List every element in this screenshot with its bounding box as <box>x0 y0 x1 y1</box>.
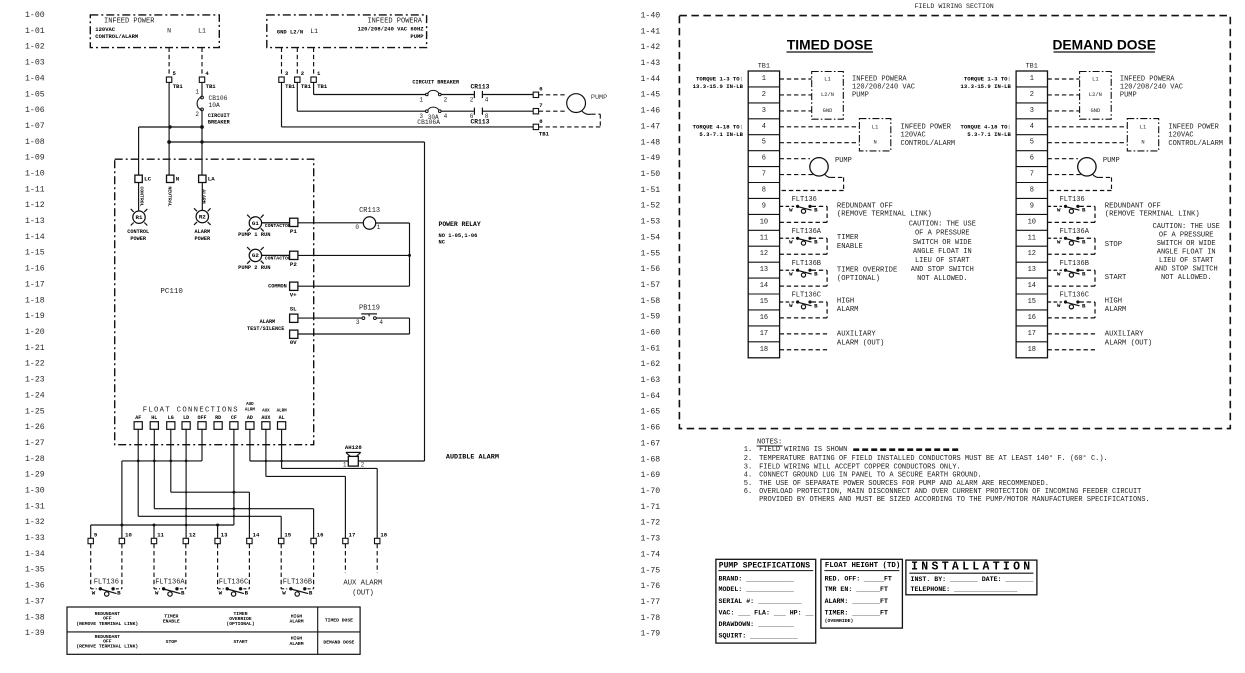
svg-text:G1: G1 <box>252 220 259 227</box>
svg-text:1-60: 1-60 <box>641 329 661 338</box>
svg-text:LIEU OF START: LIEU OF START <box>915 257 970 265</box>
svg-text:TB1: TB1 <box>1026 62 1038 70</box>
svg-text:N: N <box>176 175 180 182</box>
svg-text:TB1: TB1 <box>758 62 770 70</box>
svg-text:W: W <box>1057 207 1061 214</box>
svg-text:1-11: 1-11 <box>25 185 45 194</box>
svg-text:11: 11 <box>760 234 768 242</box>
svg-text:REDUNDANT OFF: REDUNDANT OFF <box>1105 202 1161 210</box>
svg-text:AUX ALARM: AUX ALARM <box>343 579 382 587</box>
svg-text:LD: LD <box>183 415 189 421</box>
svg-text:OFF: OFF <box>197 415 206 421</box>
svg-text:9: 9 <box>762 202 766 210</box>
svg-text:BRAND: ____________: BRAND: ____________ <box>719 575 794 582</box>
svg-text:1-79: 1-79 <box>641 630 661 639</box>
svg-text:1-63: 1-63 <box>641 376 661 385</box>
svg-text:TEST/SILENCE: TEST/SILENCE <box>247 326 284 332</box>
svg-text:R1: R1 <box>136 214 143 221</box>
svg-text:N: N <box>1141 140 1144 146</box>
svg-text:15: 15 <box>284 531 291 538</box>
svg-text:AUDIBLE ALARM: AUDIBLE ALARM <box>446 453 499 461</box>
svg-text:ALARM: ALARM <box>201 189 207 204</box>
svg-text:PUMP 1 RUN: PUMP 1 RUN <box>238 232 270 238</box>
svg-text:(OUT): (OUT) <box>352 590 374 598</box>
svg-text:INFEED POWERA: INFEED POWERA <box>852 75 907 83</box>
svg-text:L2/N: L2/N <box>1089 92 1102 98</box>
svg-text:LIEU OF START: LIEU OF START <box>1159 257 1214 265</box>
svg-text:1-38: 1-38 <box>25 613 45 622</box>
svg-text:CR113: CR113 <box>359 207 380 215</box>
svg-text:PROVIDED BY OTHERS AND MUST BE: PROVIDED BY OTHERS AND MUST BE SIZED ACC… <box>759 496 1150 504</box>
svg-text:16: 16 <box>317 531 324 538</box>
svg-text:(REMOVE TERMINAL LINK): (REMOVE TERMINAL LINK) <box>76 621 138 627</box>
svg-text:2: 2 <box>470 96 474 103</box>
svg-text:FIELD WIRING IS SHOWN: FIELD WIRING IS SHOWN <box>759 446 847 454</box>
svg-text:L1: L1 <box>824 76 830 82</box>
svg-text:1-53: 1-53 <box>641 218 661 227</box>
svg-text:4.: 4. <box>744 472 752 480</box>
svg-text:1: 1 <box>195 89 199 96</box>
svg-text:6.: 6. <box>744 488 752 496</box>
svg-text:14: 14 <box>253 531 260 538</box>
svg-text:CONNECT GROUND LUG IN PANEL TO: CONNECT GROUND LUG IN PANEL TO A SECURE … <box>759 472 982 480</box>
svg-text:CONTROL: CONTROL <box>127 229 149 235</box>
svg-text:AND STOP SWITCH: AND STOP SWITCH <box>911 266 974 274</box>
svg-text:1-77: 1-77 <box>641 598 661 607</box>
svg-text:RED. OFF: _____FT: RED. OFF: _____FT <box>825 575 892 582</box>
svg-text:6: 6 <box>762 155 766 163</box>
svg-text:W: W <box>1057 302 1061 309</box>
svg-text:2: 2 <box>361 462 365 469</box>
svg-text:ANGLE FLOAT IN: ANGLE FLOAT IN <box>1157 248 1216 256</box>
svg-text:CONTROL/ALARM: CONTROL/ALARM <box>1168 140 1223 148</box>
svg-text:TB1: TB1 <box>301 83 312 90</box>
svg-text:PUMP: PUMP <box>1103 157 1120 165</box>
svg-text:1-51: 1-51 <box>641 186 661 195</box>
svg-text:B: B <box>1082 239 1086 246</box>
svg-text:DEMAND DOSE: DEMAND DOSE <box>1052 38 1155 53</box>
svg-text:1-46: 1-46 <box>641 107 661 116</box>
svg-text:1-31: 1-31 <box>25 502 45 511</box>
svg-text:W: W <box>1057 270 1061 277</box>
svg-text:HIGH: HIGH <box>291 613 302 619</box>
svg-text:2: 2 <box>762 91 766 99</box>
svg-text:1-14: 1-14 <box>25 233 45 242</box>
svg-text:W: W <box>155 590 159 597</box>
svg-text:FLT136: FLT136 <box>1060 196 1085 204</box>
svg-text:P2: P2 <box>290 261 297 268</box>
svg-text:PB119: PB119 <box>359 305 380 313</box>
svg-text:1-54: 1-54 <box>641 233 661 242</box>
svg-text:TIMER: _______FT: TIMER: _______FT <box>825 610 888 617</box>
svg-text:1-35: 1-35 <box>25 566 45 575</box>
svg-text:AD: AD <box>247 415 253 421</box>
svg-text:1-41: 1-41 <box>641 27 661 36</box>
svg-text:NOT ALLOWED.: NOT ALLOWED. <box>917 275 967 283</box>
svg-text:INFEED POWER: INFEED POWER <box>104 18 155 26</box>
svg-text:CONTACTOR: CONTACTOR <box>265 255 291 261</box>
svg-text:W: W <box>789 238 793 245</box>
svg-text:ENABLE: ENABLE <box>837 243 863 251</box>
svg-text:NOTES:: NOTES: <box>757 438 782 446</box>
svg-text:GND: GND <box>823 108 833 114</box>
svg-text:1-06: 1-06 <box>25 106 45 115</box>
svg-text:ALARM: ALARM <box>260 319 276 325</box>
svg-text:FLT136: FLT136 <box>792 196 817 204</box>
svg-text:TMR EN: ______FT: TMR EN: ______FT <box>825 586 888 593</box>
svg-text:ALARM (OUT): ALARM (OUT) <box>837 340 884 348</box>
svg-text:120VAC: 120VAC <box>901 132 926 140</box>
svg-text:FLOAT CONNECTIONS: FLOAT CONNECTIONS <box>143 407 239 415</box>
svg-text:HIGH: HIGH <box>291 636 302 642</box>
svg-text:1-66: 1-66 <box>641 424 661 433</box>
svg-text:TB1: TB1 <box>206 83 217 90</box>
svg-text:START: START <box>1105 274 1127 282</box>
svg-text:OFF: OFF <box>103 638 112 644</box>
svg-text:B: B <box>814 302 818 309</box>
svg-text:3: 3 <box>1030 107 1034 115</box>
svg-text:1-34: 1-34 <box>25 550 45 559</box>
svg-text:PUMP: PUMP <box>852 91 869 99</box>
svg-text:OF A PRESSURE: OF A PRESSURE <box>1159 231 1214 239</box>
svg-text:REDUNDANT OFF: REDUNDANT OFF <box>837 202 893 210</box>
svg-text:1-05: 1-05 <box>25 90 45 99</box>
svg-text:ALARM: ALARM <box>289 641 303 647</box>
svg-text:1-22: 1-22 <box>25 360 45 369</box>
svg-text:1-70: 1-70 <box>641 487 661 496</box>
svg-text:SERIAL #: ___________: SERIAL #: ___________ <box>719 598 802 605</box>
svg-text:9: 9 <box>1030 202 1034 210</box>
svg-text:2.: 2. <box>744 455 752 463</box>
svg-text:G2: G2 <box>252 252 259 259</box>
svg-text:AND STOP SWITCH: AND STOP SWITCH <box>1155 265 1218 273</box>
svg-text:B: B <box>1082 207 1086 214</box>
svg-text:L1: L1 <box>198 28 206 35</box>
svg-text:1: 1 <box>762 75 766 83</box>
svg-text:RD: RD <box>215 415 221 421</box>
svg-text:TIMED DOSE: TIMED DOSE <box>325 618 353 624</box>
svg-text:SWITCH OR WIDE: SWITCH OR WIDE <box>1157 240 1216 248</box>
svg-text:TB1: TB1 <box>285 83 296 90</box>
svg-text:TIMER OVERRIDE: TIMER OVERRIDE <box>837 267 897 275</box>
svg-text:B: B <box>309 590 313 597</box>
svg-text:PUMP 2 RUN: PUMP 2 RUN <box>238 265 270 271</box>
svg-text:10: 10 <box>125 531 132 538</box>
svg-text:1: 1 <box>419 96 423 103</box>
svg-text:AUX: AUX <box>261 415 270 421</box>
svg-text:4: 4 <box>444 113 448 120</box>
svg-text:7: 7 <box>762 171 766 179</box>
svg-text:L2/N: L2/N <box>821 92 834 98</box>
svg-text:1-64: 1-64 <box>641 392 661 401</box>
svg-text:W: W <box>789 207 793 214</box>
svg-text:W: W <box>1057 238 1061 245</box>
svg-text:DEMAND DOSE: DEMAND DOSE <box>323 639 354 645</box>
svg-text:TORQUE 4-18 TO:: TORQUE 4-18 TO: <box>693 123 743 130</box>
svg-text:1-75: 1-75 <box>641 566 661 575</box>
svg-text:TEMPERATURE RATING OF FIELD IN: TEMPERATURE RATING OF FIELD INSTALLED CO… <box>759 454 1108 463</box>
svg-text:1.: 1. <box>744 446 752 454</box>
svg-text:4: 4 <box>485 96 489 103</box>
svg-text:SWITCH OR WIDE: SWITCH OR WIDE <box>913 239 972 247</box>
svg-text:STOP: STOP <box>166 639 177 645</box>
svg-text:NO 1-05,1-06: NO 1-05,1-06 <box>439 233 478 239</box>
svg-text:INFEED POWER: INFEED POWER <box>901 124 952 132</box>
svg-text:1-09: 1-09 <box>25 154 45 163</box>
svg-text:CB106A: CB106A <box>417 119 440 126</box>
svg-text:POWER: POWER <box>130 236 146 242</box>
svg-text:1-17: 1-17 <box>25 280 45 289</box>
svg-text:CIRCUIT BREAKER: CIRCUIT BREAKER <box>412 80 460 86</box>
svg-text:1-04: 1-04 <box>25 74 45 83</box>
svg-text:4: 4 <box>1030 123 1034 131</box>
svg-text:1-76: 1-76 <box>641 582 661 591</box>
svg-text:B: B <box>1082 302 1086 309</box>
svg-text:CR113: CR113 <box>471 84 490 91</box>
svg-text:1-47: 1-47 <box>641 123 661 132</box>
svg-text:CONTACTOR: CONTACTOR <box>265 223 291 229</box>
svg-text:1-68: 1-68 <box>641 455 661 464</box>
svg-text:LG: LG <box>168 415 174 421</box>
svg-text:11: 11 <box>1028 234 1036 242</box>
svg-text:TELEPHONE: ________________: TELEPHONE: ________________ <box>911 586 1018 593</box>
svg-text:1-69: 1-69 <box>641 471 661 480</box>
svg-text:12: 12 <box>760 250 768 258</box>
svg-text:HL: HL <box>151 415 157 421</box>
svg-text:CONTROL/ALARM: CONTROL/ALARM <box>901 140 956 148</box>
svg-text:15: 15 <box>1028 298 1036 306</box>
svg-text:PUMP: PUMP <box>410 33 424 40</box>
svg-text:1-19: 1-19 <box>25 312 45 321</box>
svg-text:SQUIRT: ____________: SQUIRT: ____________ <box>719 633 798 640</box>
svg-text:1-25: 1-25 <box>25 407 45 416</box>
svg-text:6: 6 <box>1030 155 1034 163</box>
svg-text:1-62: 1-62 <box>641 360 661 369</box>
svg-text:1-16: 1-16 <box>25 265 45 274</box>
svg-text:10: 10 <box>760 218 768 226</box>
svg-text:ALARM: ALARM <box>1105 306 1127 314</box>
svg-text:ALRM: ALRM <box>245 409 256 413</box>
svg-text:12: 12 <box>1028 250 1036 258</box>
svg-text:HIGH: HIGH <box>1105 298 1122 306</box>
svg-text:16: 16 <box>1028 314 1036 322</box>
svg-text:1-67: 1-67 <box>641 439 661 448</box>
svg-text:3.: 3. <box>744 464 752 472</box>
svg-text:R2: R2 <box>199 213 206 220</box>
svg-text:1-65: 1-65 <box>641 408 661 417</box>
svg-text:1-28: 1-28 <box>25 455 45 464</box>
svg-text:8: 8 <box>762 187 766 195</box>
svg-text:VAC: ___ FLA: ___ HP: __: VAC: ___ FLA: ___ HP: __ <box>719 610 814 617</box>
svg-text:B: B <box>245 590 249 597</box>
svg-text:FLT136A: FLT136A <box>792 228 822 236</box>
svg-text:PUMP: PUMP <box>591 94 607 102</box>
svg-text:FLT136A: FLT136A <box>1060 228 1090 236</box>
svg-text:(OPTIONAL): (OPTIONAL) <box>837 275 880 283</box>
svg-text:B: B <box>814 271 818 278</box>
svg-text:1-26: 1-26 <box>25 423 45 432</box>
svg-text:1-43: 1-43 <box>641 59 661 68</box>
svg-text:AUD: AUD <box>246 403 254 407</box>
svg-text:8: 8 <box>1030 187 1034 195</box>
svg-text:5: 5 <box>762 139 766 147</box>
svg-text:SL: SL <box>290 306 297 313</box>
svg-text:1-42: 1-42 <box>641 43 661 52</box>
svg-text:1-74: 1-74 <box>641 550 661 559</box>
svg-text:13.3-15.9 IN-LB: 13.3-15.9 IN-LB <box>693 83 744 90</box>
svg-text:ALARM: ALARM <box>289 619 303 625</box>
svg-text:1-32: 1-32 <box>25 518 45 527</box>
svg-text:FLT136C: FLT136C <box>219 578 248 586</box>
svg-text:4: 4 <box>379 319 383 326</box>
svg-text:7: 7 <box>1030 171 1034 179</box>
svg-text:STOP: STOP <box>1105 241 1122 249</box>
svg-text:L1: L1 <box>310 28 318 35</box>
svg-text:CONTROL/ALARM: CONTROL/ALARM <box>95 33 139 40</box>
svg-text:5.3-7.1 IN-LB: 5.3-7.1 IN-LB <box>967 131 1011 138</box>
svg-text:FLT136: FLT136 <box>94 578 119 586</box>
svg-text:ALARM: ALARM <box>195 229 211 235</box>
svg-text:7: 7 <box>539 102 542 109</box>
svg-text:ALRM: ALRM <box>277 410 288 414</box>
svg-text:17: 17 <box>760 330 768 338</box>
svg-text:TIMER: TIMER <box>837 234 859 242</box>
svg-text:L1: L1 <box>872 124 878 130</box>
svg-text:1: 1 <box>377 224 381 231</box>
svg-text:1-57: 1-57 <box>641 281 661 290</box>
svg-text:1-07: 1-07 <box>25 122 45 131</box>
svg-text:120/208/240 VAC 60HZ: 120/208/240 VAC 60HZ <box>358 26 425 33</box>
svg-text:18: 18 <box>760 346 768 354</box>
svg-text:14: 14 <box>760 282 768 290</box>
svg-text:HIGH: HIGH <box>837 298 854 306</box>
svg-text:1-30: 1-30 <box>25 487 45 496</box>
svg-text:B: B <box>181 590 185 597</box>
svg-text:GND L2/N: GND L2/N <box>277 29 303 36</box>
svg-text:16: 16 <box>760 314 768 322</box>
svg-text:1-55: 1-55 <box>641 249 661 258</box>
svg-text:B: B <box>1082 271 1086 278</box>
svg-text:1-29: 1-29 <box>25 471 45 480</box>
svg-text:OVERLOAD PROTECTION, MAIN DISC: OVERLOAD PROTECTION, MAIN DISCONNECT AND… <box>759 488 1141 496</box>
svg-text:(REMOVE TERMINAL LINK): (REMOVE TERMINAL LINK) <box>76 644 138 650</box>
svg-text:1-72: 1-72 <box>641 519 661 528</box>
svg-text:1-36: 1-36 <box>25 582 45 591</box>
svg-text:AH128: AH128 <box>345 444 362 451</box>
svg-text:1-61: 1-61 <box>641 344 661 353</box>
svg-text:INFEED POWER: INFEED POWER <box>1168 124 1219 132</box>
svg-text:PUMP: PUMP <box>1120 91 1137 99</box>
svg-text:NOT ALLOWED.: NOT ALLOWED. <box>1161 274 1211 282</box>
svg-text:PC110: PC110 <box>160 288 183 296</box>
svg-text:1-71: 1-71 <box>641 503 661 512</box>
svg-text:FLT136B: FLT136B <box>792 260 821 268</box>
svg-text:PUMP SPECIFICATIONS: PUMP SPECIFICATIONS <box>719 562 810 571</box>
svg-text:OFF: OFF <box>103 616 112 622</box>
svg-text:B: B <box>814 207 818 214</box>
svg-text:TORQUE 1-3 TO:: TORQUE 1-3 TO: <box>964 75 1011 82</box>
svg-text:1: 1 <box>343 462 347 469</box>
svg-text:13: 13 <box>760 266 768 274</box>
svg-text:1-12: 1-12 <box>25 201 45 210</box>
svg-text:W: W <box>789 302 793 309</box>
svg-text:1-33: 1-33 <box>25 534 45 543</box>
svg-text:1-18: 1-18 <box>25 296 45 305</box>
svg-text:INFEED POWERA: INFEED POWERA <box>367 18 422 26</box>
svg-text:0: 0 <box>355 224 359 231</box>
svg-text:FLT136A: FLT136A <box>155 578 185 586</box>
svg-text:L1: L1 <box>1092 76 1098 82</box>
svg-text:1-13: 1-13 <box>25 217 45 226</box>
svg-text:ENABLE: ENABLE <box>163 619 180 625</box>
svg-text:15: 15 <box>760 298 768 306</box>
svg-text:POWER RELAY: POWER RELAY <box>439 221 481 228</box>
svg-text:ALARM: _______FT: ALARM: _______FT <box>825 598 888 605</box>
svg-text:1-01: 1-01 <box>25 27 45 36</box>
svg-text:ANGLE FLOAT IN: ANGLE FLOAT IN <box>913 248 972 256</box>
svg-text:18: 18 <box>1028 346 1036 354</box>
svg-text:2: 2 <box>1030 91 1034 99</box>
svg-text:(REMOVE TERMINAL LINK): (REMOVE TERMINAL LINK) <box>1105 210 1200 218</box>
svg-text:CAUTION: THE USE: CAUTION: THE USE <box>1153 223 1220 231</box>
svg-text:1-39: 1-39 <box>25 629 45 638</box>
svg-text:1-44: 1-44 <box>641 75 661 84</box>
svg-text:N: N <box>167 28 171 35</box>
svg-text:1-56: 1-56 <box>641 265 661 274</box>
svg-text:FIELD WIRING SECTION: FIELD WIRING SECTION <box>915 3 994 10</box>
svg-text:FLT136B: FLT136B <box>283 578 312 586</box>
svg-text:TB1: TB1 <box>317 83 328 90</box>
svg-text:TORQUE 1-3 TO:: TORQUE 1-3 TO: <box>696 75 743 82</box>
svg-text:1-00: 1-00 <box>25 11 45 20</box>
svg-text:5.: 5. <box>744 480 752 488</box>
svg-text:1-23: 1-23 <box>25 376 45 385</box>
svg-text:3: 3 <box>356 319 360 326</box>
svg-text:1-27: 1-27 <box>25 439 45 448</box>
svg-text:AL: AL <box>279 415 285 421</box>
svg-text:13: 13 <box>221 531 228 538</box>
svg-text:OF A PRESSURE: OF A PRESSURE <box>915 230 970 238</box>
svg-text:W: W <box>219 590 223 597</box>
svg-text:(REMOVE TERMINAL LINK): (REMOVE TERMINAL LINK) <box>837 210 932 218</box>
svg-text:NC: NC <box>439 239 446 245</box>
svg-text:17: 17 <box>1028 330 1036 338</box>
svg-text:FLT136C: FLT136C <box>1060 292 1089 300</box>
svg-text:1-21: 1-21 <box>25 344 45 353</box>
svg-text:W: W <box>282 590 286 597</box>
svg-text:AUXILIARY: AUXILIARY <box>1105 330 1145 338</box>
svg-text:FIELD WIRING WILL ACCEPT COPPE: FIELD WIRING WILL ACCEPT COPPER CONDUCTO… <box>759 464 961 472</box>
svg-text:1-03: 1-03 <box>25 59 45 68</box>
svg-text:B: B <box>814 239 818 246</box>
svg-text:PUMP: PUMP <box>835 157 852 165</box>
svg-text:1-08: 1-08 <box>25 138 45 147</box>
svg-text:4: 4 <box>762 123 766 131</box>
svg-text:W: W <box>789 270 793 277</box>
svg-text:INFEED POWERA: INFEED POWERA <box>1120 75 1175 83</box>
svg-text:5: 5 <box>1030 139 1034 147</box>
svg-text:THE USE OF SEPARATE POWER SOUR: THE USE OF SEPARATE POWER SOURCES FOR PU… <box>759 480 1049 488</box>
svg-text:5.3-7.1 IN-LB: 5.3-7.1 IN-LB <box>699 131 743 138</box>
svg-text:V+: V+ <box>290 292 297 299</box>
svg-text:1: 1 <box>1030 75 1034 83</box>
svg-text:1-58: 1-58 <box>641 297 661 306</box>
svg-text:AF: AF <box>135 415 141 421</box>
svg-text:1-40: 1-40 <box>641 12 661 21</box>
svg-text:DRAWDOWN: _________: DRAWDOWN: _________ <box>719 621 794 628</box>
svg-text:2: 2 <box>195 111 199 118</box>
svg-text:FLT136B: FLT136B <box>1060 260 1089 268</box>
